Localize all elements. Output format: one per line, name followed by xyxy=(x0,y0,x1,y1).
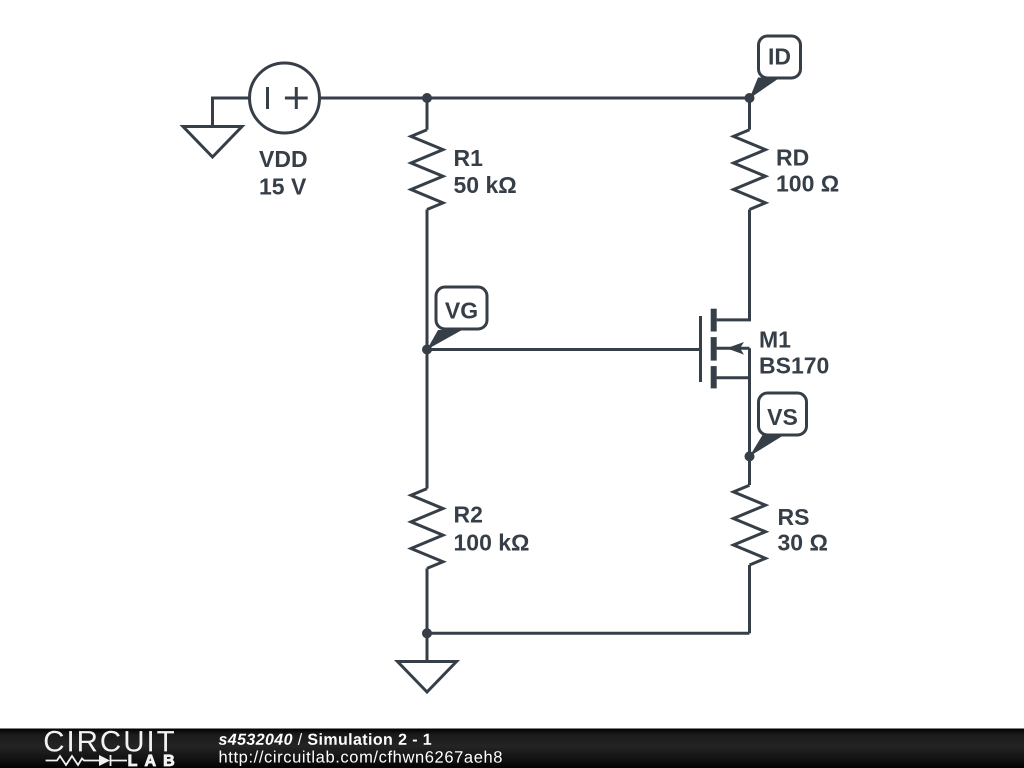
node ID flag xyxy=(750,78,781,99)
resistor RS xyxy=(734,485,766,565)
wire xyxy=(748,98,751,130)
wire xyxy=(213,98,250,127)
wire xyxy=(748,456,751,485)
svg-text:100 kΩ: 100 kΩ xyxy=(454,530,530,556)
svg-text:RD: RD xyxy=(776,145,809,171)
wire xyxy=(426,98,429,130)
wire xyxy=(748,565,751,633)
transistor M1 xyxy=(699,316,702,382)
svg-text:M1: M1 xyxy=(759,326,791,352)
wire xyxy=(717,210,750,320)
junction xyxy=(422,93,432,103)
svg-text:VG: VG xyxy=(445,298,478,324)
wire xyxy=(427,632,750,635)
wire xyxy=(426,350,429,489)
svg-text:30 Ω: 30 Ω xyxy=(778,530,828,556)
resistor R1 xyxy=(411,130,443,210)
node VG flag xyxy=(427,330,462,350)
junction xyxy=(422,628,432,638)
svg-text:http://circuitlab.com/cfhwn626: http://circuitlab.com/cfhwn6267aeh8 xyxy=(218,749,502,767)
ground xyxy=(398,662,457,693)
svg-text:LAB: LAB xyxy=(128,753,175,768)
resistor RD xyxy=(734,130,766,210)
node VS flag xyxy=(750,435,785,456)
svg-text:BS170: BS170 xyxy=(759,352,829,378)
wire xyxy=(426,633,429,662)
logo doodle wire xyxy=(46,755,127,766)
svg-text:ID: ID xyxy=(768,43,791,69)
voltage source V1 xyxy=(250,63,320,133)
svg-text:R2: R2 xyxy=(454,502,483,528)
junction VS xyxy=(745,451,755,461)
svg-text:R1: R1 xyxy=(454,145,484,171)
wire xyxy=(427,348,700,351)
svg-text:15 V: 15 V xyxy=(259,174,307,200)
resistor R2 xyxy=(411,489,443,569)
logo doodle diode xyxy=(99,755,110,766)
wire xyxy=(426,568,429,633)
svg-text:100 Ω: 100 Ω xyxy=(776,171,839,197)
wire xyxy=(426,210,429,350)
junction VG xyxy=(422,345,432,355)
svg-text:RS: RS xyxy=(778,504,810,530)
wire xyxy=(320,97,750,100)
node dot xyxy=(745,93,755,103)
svg-text:VDD: VDD xyxy=(259,146,308,172)
svg-text:50 kΩ: 50 kΩ xyxy=(454,172,517,198)
svg-text:VS: VS xyxy=(767,404,798,430)
ground xyxy=(183,127,242,158)
svg-text:s4532040 / Simulation 2 - 1: s4532040 / Simulation 2 - 1 xyxy=(218,732,432,749)
